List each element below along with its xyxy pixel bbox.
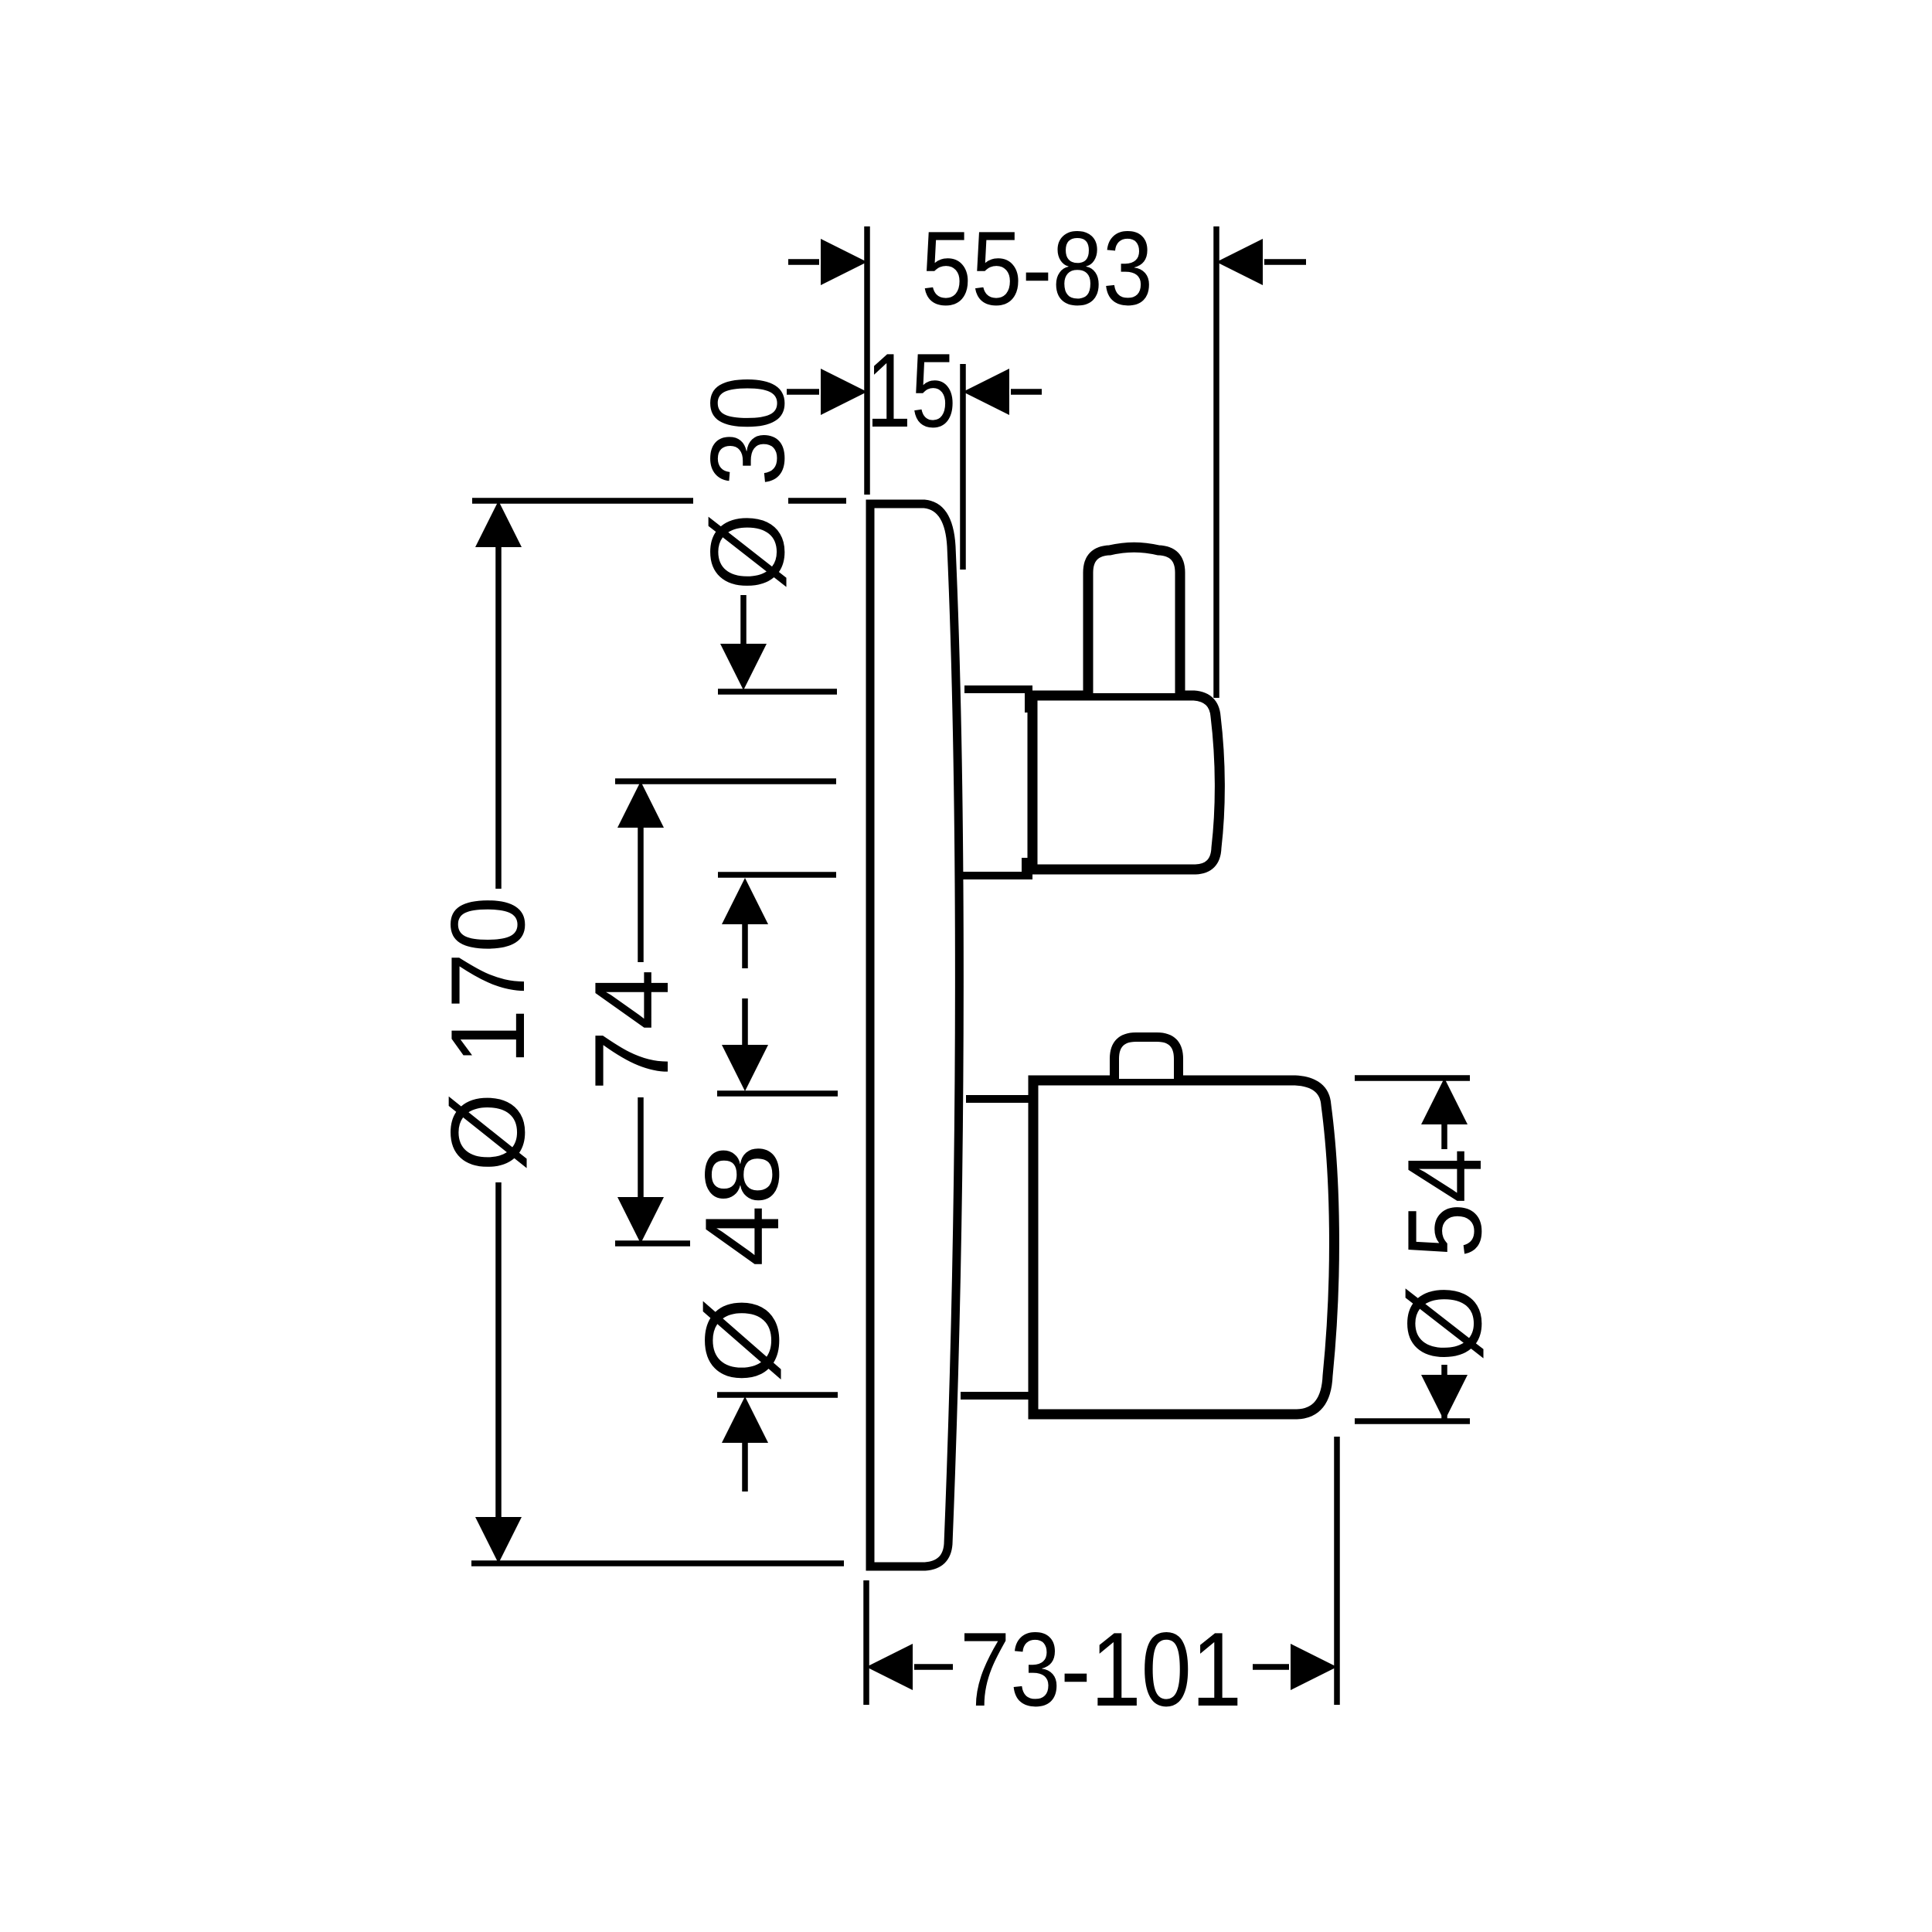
svg-text:Ø 30: Ø 30: [689, 376, 806, 590]
svg-text:Ø 170: Ø 170: [429, 896, 546, 1172]
svg-text:55-83: 55-83: [921, 209, 1153, 327]
svg-text:Ø 54: Ø 54: [1386, 1148, 1503, 1362]
svg-text:Ø 48: Ø 48: [683, 1144, 801, 1383]
svg-text:15: 15: [866, 332, 956, 449]
svg-text:73-101: 73-101: [960, 1611, 1242, 1728]
svg-text:74: 74: [573, 969, 690, 1091]
